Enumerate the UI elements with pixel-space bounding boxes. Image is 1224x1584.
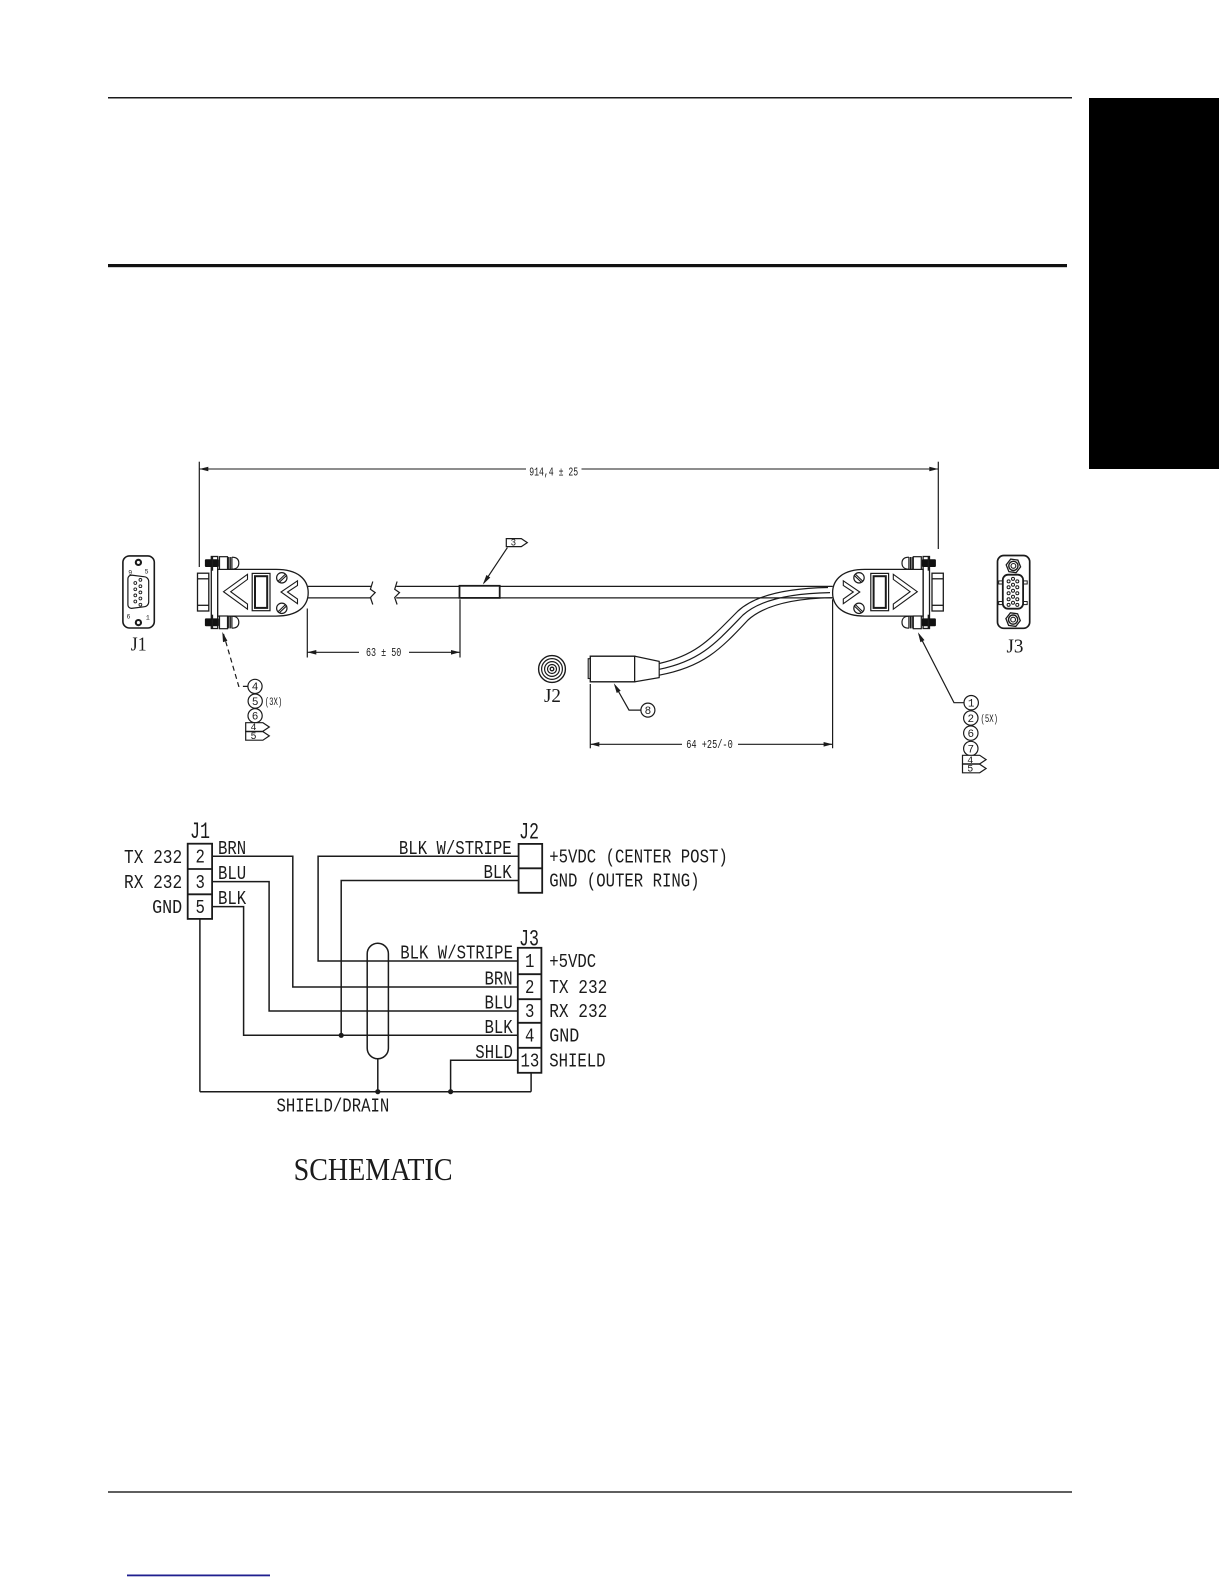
dimension 64 +25/-0: extension line (right, at J3 boot) [832,599,834,748]
pigtail wire strand (bottom) [659,598,832,676]
dimension 63 ± 50: dimension line [307,651,359,653]
junction: shield oval onto bus [375,1089,380,1094]
svg-text:BLU: BLU [218,863,246,885]
svg-text:SHIELD/DRAIN: SHIELD/DRAIN [277,1096,390,1118]
dimension 914,4 ± 25: extension line (right, at J3 plug) [937,462,939,549]
bottom rule [108,1491,1072,1492]
cable shield symbol (stadium oval) [367,943,388,1059]
svg-text:6: 6 [967,729,974,741]
svg-text:(5X): (5X) [981,714,999,726]
svg-text:2: 2 [967,714,974,726]
svg-text:J2: J2 [544,685,561,707]
J3 side tabs [999,581,1003,584]
leader: callout 1 to J3 plug [919,634,964,703]
svg-text:7: 7 [967,744,974,756]
svg-text:(3X): (3X) [265,697,283,709]
svg-text:+5VDC: +5VDC [549,951,596,973]
dimension 914,4 ± 25: right arrowhead [929,467,938,472]
DC power plug (item 8) tip [588,659,590,679]
svg-text:9: 9 [128,569,132,576]
svg-text:5: 5 [196,897,205,919]
DC power plug strain relief taper [635,656,660,682]
callout circle 6 (left stack) [248,709,262,723]
svg-text:5: 5 [145,568,149,575]
svg-text:BRN: BRN [218,838,246,860]
dimension 914,4 ± 25: left arrowhead [199,467,208,472]
item flag 3 [506,539,527,547]
svg-text:BLU: BLU [485,993,513,1015]
svg-text:SCHEMATIC: SCHEMATIC [294,1151,453,1187]
svg-text:GND: GND [549,1025,579,1047]
wire: shield/drain bus [200,1091,531,1093]
svg-text:3: 3 [196,872,205,894]
svg-text:SHLD: SHLD [475,1042,513,1064]
dimension 63 ± 50: arrowheads [307,650,316,655]
wire BLK: J1-5 to J3-4 [212,907,518,1036]
item 3 marker sleeve on cable [460,586,500,598]
svg-text:63 ± 50: 63 ± 50 [366,646,401,660]
svg-text:914,4 ± 25: 914,4 ± 25 [529,466,578,480]
svg-text:8: 8 [645,706,652,718]
svg-text:5: 5 [967,765,973,776]
wire BLU: J1-3 to J3-3 [212,882,518,1011]
J3 jack nut (bottom) [1006,613,1020,627]
svg-text:4: 4 [525,1025,534,1047]
callout circle 5 (left stack) [248,694,262,708]
cable break symbol (right) [395,582,400,605]
sidebar black block [1089,98,1219,469]
wire: J3 shell stub from bus [530,1073,532,1092]
wire SHLD: J3-13 to shield/drain bus [451,1060,518,1091]
connector J2 (schematic pin box, power jack) [519,844,543,893]
leader: flag 3 to marker sleeve [484,548,508,583]
svg-text:1: 1 [146,615,150,622]
DC power plug body [590,656,634,682]
connector J1 plug with backshell (left) [198,557,309,629]
svg-text:BRN: BRN [485,969,513,991]
junction: SHLD onto shield/drain bus [448,1089,453,1094]
pigtail wire strand (middle) [659,593,830,670]
wire BRN: J1-2 to J3-2 [212,856,518,987]
wire BLK W/STRIPE: J2-1 to J3-1 [318,856,518,961]
cable (main run, bottom edge) [308,597,371,599]
callout circle 7 (right stack) [964,741,978,755]
dimension 64 +25/-0: arrowheads [590,742,599,747]
callout circle 2 (right stack) [964,711,978,725]
svg-text:64 +25/-0: 64 +25/-0 [686,738,733,752]
svg-text:TX 232: TX 232 [124,847,182,869]
leader: callout 4 to J1 plug (dashed) [224,634,248,687]
callout circle 8 [641,703,655,717]
svg-text:BLK W/STRIPE: BLK W/STRIPE [400,943,513,965]
item flag 4 (left stack) [246,723,270,732]
callout circle 4 (left stack) [248,679,262,693]
callout circle 1 (right stack) [964,696,978,710]
connector J3 (schematic pin box, pins 1/2/3/4/13) [518,948,542,1073]
cable break symbol (left) [370,582,375,605]
dimension 64 +25/-0: extension line (left, at plug) [589,684,591,748]
item flag 5 (left stack) [246,732,270,741]
svg-text:6: 6 [252,712,259,724]
callout circle 6 (right stack) [964,726,978,740]
item flag 5 (right stack) [963,764,987,773]
footer link underline [127,1575,270,1577]
connector J1 (schematic pin box, pins 2/3/5) [188,844,212,919]
svg-text:BLK: BLK [485,1017,514,1039]
connector J3 plug with backshell (right, mirrored) [833,557,944,629]
svg-text:2: 2 [196,847,205,869]
J1 pins (9) [134,579,142,607]
svg-text:3: 3 [511,538,516,549]
svg-text:4: 4 [252,682,259,694]
J3 D-inset [1003,575,1023,609]
wire: shield oval stub to bus [377,1059,379,1092]
wire BLK: J2-2 to junction on GND wire [341,881,518,1036]
svg-text:J2: J2 [519,820,539,846]
dimension 914,4 ± 25: extension line (left, at J1 plug) [198,462,200,567]
connector J2 face view (barrel jack rings) [539,656,566,683]
svg-text:5: 5 [252,697,259,709]
svg-text:5: 5 [250,732,256,743]
dimension 914,4 ± 25: dimension line [199,468,526,470]
svg-text:TX 232: TX 232 [549,977,607,999]
svg-text:J1: J1 [190,819,210,845]
svg-text:BLK: BLK [218,888,247,910]
wire: J1 shell stub to shield/drain bus [199,919,201,1092]
svg-text:SHIELD: SHIELD [549,1050,605,1072]
cable (main run, top edge) [308,585,371,587]
svg-text:GND: GND [152,897,182,919]
svg-text:+5VDC (CENTER POST): +5VDC (CENTER POST) [549,846,728,868]
svg-text:RX 232: RX 232 [124,872,182,894]
svg-text:2: 2 [525,977,534,999]
svg-text:3: 3 [525,1001,534,1023]
item flag 4 (right stack) [963,755,987,764]
svg-text:1: 1 [968,699,975,711]
pigtail wire strand (top) [659,588,828,664]
J3 pins (15) [1007,577,1019,606]
svg-text:BLK W/STRIPE: BLK W/STRIPE [399,838,512,860]
junction: J2 ground onto BLK wire [339,1033,344,1038]
connector J3 face view (HD15 female) [998,556,1030,629]
connector J1 face view (DB9 female) [123,556,154,628]
svg-text:GND (OUTER RING): GND (OUTER RING) [549,871,699,893]
dimension 63 ± 50: extension line (left) [306,609,308,658]
svg-text:J3: J3 [1007,636,1024,658]
svg-text:J3: J3 [519,927,539,953]
svg-text:RX 232: RX 232 [549,1001,607,1023]
dimension 64 +25/-0: dimension line [590,743,682,745]
section rule (thick) [108,264,1067,267]
svg-text:J1: J1 [131,633,147,655]
J3 jack nut (top) [1006,559,1020,573]
svg-text:BLK: BLK [484,862,513,884]
top rule [108,97,1072,99]
leader: callout 8 to plug [615,686,641,711]
dimension 63 ± 50: extension line (right) [459,599,461,657]
svg-text:1: 1 [525,951,534,973]
svg-text:6: 6 [126,614,130,621]
svg-text:13: 13 [521,1050,540,1072]
